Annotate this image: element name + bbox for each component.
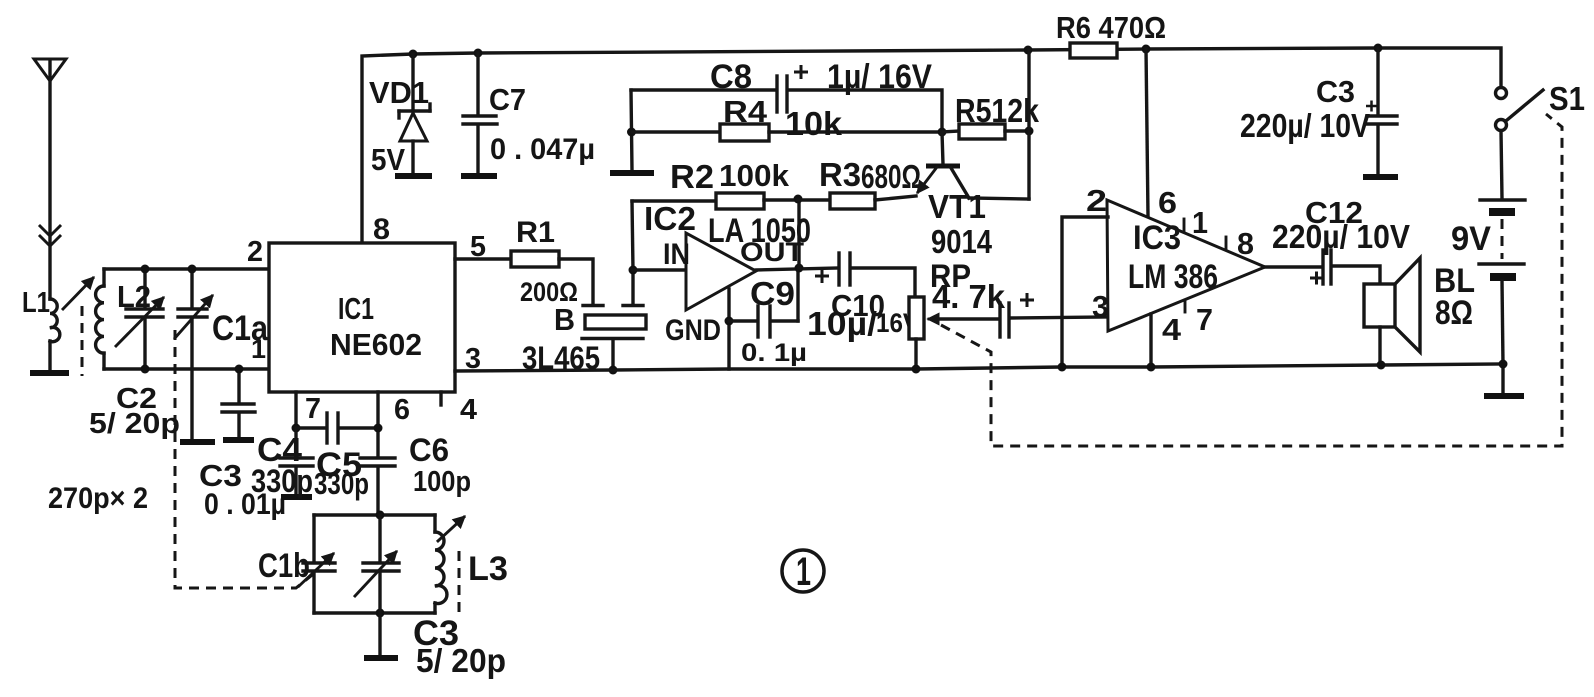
capacitor C4 (pin7 to ground) — [280, 428, 313, 495]
node tank2 bottom — [376, 609, 385, 618]
svg-text:8: 8 — [1237, 226, 1254, 261]
wire IC1 pin5 to R1 — [455, 257, 511, 260]
capacitor C11 (to IC3 pin3) — [1000, 293, 1108, 337]
wire S1 to battery — [1501, 131, 1502, 198]
svg-text:9014: 9014 — [931, 223, 993, 260]
pin 6 wire — [376, 392, 379, 457]
node OUT junction — [795, 264, 804, 273]
inductor L2 on tank left edge — [96, 269, 104, 369]
svg-text:C1b: C1b — [258, 547, 310, 585]
inductor L3 on tank2 right edge — [435, 532, 447, 604]
node IC3 pin6 rail junction — [1142, 45, 1151, 54]
ground C7 — [461, 173, 497, 179]
node IC3 pin4 ground junction — [1147, 363, 1156, 372]
capacitor C7 — [463, 53, 497, 174]
svg-text:2: 2 — [247, 236, 263, 268]
svg-text:L3: L3 — [468, 550, 508, 588]
svg-text:100k: 100k — [719, 158, 790, 193]
wire R2 left vertical — [632, 201, 633, 270]
svg-text:0 . 047µ: 0 . 047µ — [490, 133, 595, 166]
ground antenna — [30, 370, 69, 376]
svg-text:270p× 2: 270p× 2 — [48, 482, 148, 515]
capacitor C5 (between pin7 and pin6) — [296, 413, 378, 443]
node C7 top junction — [474, 49, 483, 58]
svg-text:R2: R2 — [670, 158, 714, 195]
svg-text:7: 7 — [1196, 302, 1213, 337]
node R4/R5/VT1 base junction — [938, 128, 947, 137]
capacitor C6 (pin6 to tank2) — [360, 458, 395, 515]
dashed gang line RP to S1 — [941, 114, 1562, 446]
svg-text:4: 4 — [1162, 312, 1182, 347]
svg-text:R4: R4 — [723, 94, 768, 129]
svg-text:S1: S1 — [1549, 80, 1585, 117]
svg-text:GND: GND — [665, 314, 721, 347]
wire GND stem — [727, 289, 730, 369]
op-amp IC2 LA1050 — [686, 233, 756, 310]
node R2/R3 junction — [794, 195, 803, 204]
ground battery — [1484, 364, 1524, 396]
node speaker ground junction — [1377, 361, 1386, 370]
svg-text:10µ/: 10µ/ — [807, 305, 877, 342]
wire IC3 pin4 to ground — [1149, 314, 1152, 367]
capacitor C10 — [815, 253, 915, 297]
wire tank2 to ground — [378, 613, 381, 656]
ceramic filter B 3L465 — [582, 270, 646, 370]
svg-text:C9: C9 — [750, 275, 795, 312]
pin 4 stub — [439, 392, 442, 405]
ground C3 220µ — [1363, 174, 1398, 180]
dashed gang line L1 — [81, 306, 84, 376]
svg-text:C3: C3 — [1316, 74, 1355, 109]
speaker BL — [1364, 258, 1420, 365]
svg-text:4: 4 — [460, 394, 477, 426]
node IC3 pin2 ground junction — [1058, 363, 1067, 372]
resistor R2 — [632, 193, 798, 209]
svg-text:330p: 330p — [314, 466, 369, 501]
adjust arrow L3 — [438, 517, 464, 541]
node filter B ground junction — [609, 366, 618, 375]
trimmer capacitor C1a — [175, 269, 212, 440]
node RP bottom junction — [912, 365, 921, 374]
trimmer capacitor C2 — [116, 269, 163, 369]
zener diode VD1 — [399, 54, 430, 174]
wire R2/R3 feedback vertical — [797, 199, 800, 268]
svg-text:100p: 100p — [413, 466, 471, 498]
dashed line L3 — [458, 551, 461, 615]
svg-text:IC3: IC3 — [1133, 219, 1181, 257]
svg-text:LM 386: LM 386 — [1128, 258, 1218, 296]
tank2 box wires — [314, 515, 435, 613]
pin 8 tick — [1225, 237, 1228, 249]
switch S1 — [1496, 88, 1544, 131]
wire +V top rail — [362, 48, 1501, 243]
ground tank2 — [364, 655, 398, 661]
pin 7 tick — [1184, 300, 1187, 312]
svg-text:680Ω: 680Ω — [861, 158, 921, 195]
node C3 0.01 top — [235, 365, 244, 374]
svg-text:9V: 9V — [1451, 220, 1491, 258]
wire tank1 top (IC1 pin2 net) — [104, 267, 269, 270]
battery 9V — [1479, 200, 1525, 364]
svg-text:L1: L1 — [22, 287, 50, 319]
trimmer capacitor C1b — [299, 554, 335, 586]
svg-text:R512k: R512k — [955, 92, 1040, 129]
svg-text:C6: C6 — [409, 432, 449, 468]
wire ground rail (IC1 pin3 net) — [455, 364, 1503, 371]
wire L1 to ground — [48, 341, 51, 371]
capacitor C3 220µ — [1366, 48, 1397, 175]
svg-text:1: 1 — [251, 334, 266, 364]
resistor R6 — [1070, 43, 1117, 58]
node C2 top — [141, 265, 150, 274]
svg-text:6: 6 — [394, 394, 410, 426]
potentiometer RP — [909, 297, 998, 369]
capacitor C8 — [631, 65, 942, 132]
svg-text:IC2: IC2 — [644, 200, 696, 237]
svg-text:C8: C8 — [710, 58, 752, 96]
svg-text:2: 2 — [1086, 183, 1107, 218]
wire IC3 output — [1265, 265, 1322, 268]
svg-text:1: 1 — [1192, 205, 1208, 240]
wire tank1 bottom (IC1 pin1 net) — [104, 367, 269, 370]
node GND/C9 junction — [725, 317, 734, 326]
ground C1a — [180, 439, 215, 445]
node C2 bottom — [141, 365, 150, 374]
svg-text:R6 470Ω: R6 470Ω — [1056, 10, 1166, 45]
pin 1 tick — [1183, 219, 1186, 231]
node pin7 junction — [292, 424, 301, 433]
svg-text:OUT: OUT — [740, 237, 805, 267]
svg-text:C7: C7 — [489, 82, 526, 117]
node R5 right junction — [1025, 127, 1034, 136]
adjust arrow L1 — [63, 278, 93, 309]
ground VD1 — [395, 173, 432, 179]
svg-text:7: 7 — [305, 393, 321, 425]
node VD1 top junction — [409, 50, 418, 59]
svg-text:IN: IN — [663, 238, 690, 271]
wire IN — [633, 268, 686, 271]
wire IC3 pin2 to ground — [1062, 217, 1108, 367]
svg-text:220µ/ 10V: 220µ/ 10V — [1240, 107, 1370, 144]
svg-text:1µ/ 16V: 1µ/ 16V — [827, 58, 932, 96]
node IN junction — [629, 266, 638, 275]
wire R1 to filter B — [559, 259, 593, 303]
svg-text:IC1: IC1 — [338, 291, 374, 326]
node R4 left junction — [627, 128, 636, 137]
svg-text:R1: R1 — [516, 216, 555, 249]
svg-text:5/ 20p: 5/ 20p — [89, 408, 180, 440]
resistor R5 — [942, 124, 1029, 139]
svg-text:8: 8 — [373, 213, 390, 246]
svg-text:B: B — [554, 302, 575, 337]
svg-text:VT1: VT1 — [928, 188, 986, 225]
op-amp / mixer IC1 NE602 — [269, 243, 455, 392]
svg-text:5V: 5V — [371, 142, 405, 177]
svg-text:10k: 10k — [785, 105, 843, 142]
pin 7 wire — [294, 392, 297, 428]
inductor L1 — [50, 299, 60, 342]
ground C3 0.01µ — [223, 437, 254, 443]
op-amp IC3 LM386 — [1107, 200, 1265, 331]
svg-text:NE602: NE602 — [330, 327, 422, 362]
capacitor C9 — [729, 268, 798, 337]
wire C8/R4 left vertical — [631, 90, 632, 170]
ground C4 — [281, 494, 312, 500]
transistor VT1 9014 — [918, 132, 1029, 199]
svg-text:R3: R3 — [819, 156, 861, 193]
wire OUT — [756, 268, 838, 270]
svg-text:VD1: VD1 — [369, 75, 429, 110]
resistor R3 — [798, 193, 916, 209]
node R5 rail junction — [1024, 46, 1033, 55]
resistor R1 — [511, 251, 559, 267]
node C3 rail junction — [1374, 44, 1383, 53]
wire IC3 pin6 from rail — [1146, 49, 1148, 216]
svg-text:220µ/ 10V: 220µ/ 10V — [1272, 218, 1410, 255]
circled figure number 1 — [782, 550, 824, 594]
svg-text:330p: 330p — [251, 463, 313, 499]
node battery rail junction — [1499, 360, 1508, 369]
node pin6 junction — [374, 424, 383, 433]
svg-text:8Ω: 8Ω — [1435, 294, 1473, 332]
capacitor C12 — [1310, 250, 1380, 285]
trimmer capacitor C3 5/20p (tank2 middle) — [355, 515, 399, 613]
antenna — [34, 59, 66, 299]
node C1a top — [188, 265, 197, 274]
svg-text:5/ 20p: 5/ 20p — [416, 642, 506, 679]
resistor R4 — [632, 124, 942, 141]
ground C8/R4 — [610, 170, 654, 176]
svg-text:1: 1 — [796, 550, 811, 594]
svg-text:6: 6 — [1158, 185, 1177, 220]
svg-text:3: 3 — [1092, 289, 1109, 324]
capacitor C3 0.01µ — [222, 369, 255, 438]
svg-text:0. 1µ: 0. 1µ — [741, 339, 807, 367]
wire R5 right vertical to collector — [1027, 50, 1030, 199]
node tank2 top — [376, 511, 385, 520]
dashed gang line C1a to C1b — [175, 330, 317, 588]
svg-text:4. 7k: 4. 7k — [932, 278, 1006, 315]
